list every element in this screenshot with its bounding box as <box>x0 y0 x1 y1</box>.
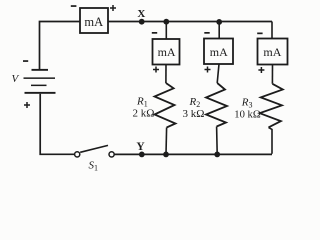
battery plate short (top, negative) <box>32 69 49 71</box>
polarity + of ammeter U2 <box>153 67 159 73</box>
ammeter U2 (branch 1 mA meter) <box>153 39 180 65</box>
svg-text:mA: mA <box>210 45 228 59</box>
wire: battery bottom stub to bottom-left corner and to switch <box>40 94 74 155</box>
resistor R2 <box>206 83 227 127</box>
junction dot: branch 1 bottom tap <box>163 152 169 158</box>
battery V <box>24 69 56 94</box>
polarity + of ammeter U1 <box>110 5 116 11</box>
junction dot: branch 2 top tap <box>216 19 222 25</box>
svg-text:mA: mA <box>158 45 176 59</box>
resistor R3 <box>260 84 283 128</box>
wire: branch 2 drop from top bus to meter <box>218 22 220 39</box>
ammeter U1 (series mA meter) <box>80 8 108 33</box>
wire: resistor R2 to bottom bus <box>216 127 219 155</box>
wire: branch 1 drop from top bus to meter <box>165 22 167 39</box>
polarity - of ammeter U3 <box>204 32 209 34</box>
node X junction dot <box>139 19 145 25</box>
polarity + of ammeter U3 <box>205 67 211 73</box>
svg-text:Y: Y <box>136 141 145 153</box>
resistor R1 <box>155 83 176 128</box>
svg-text:mA: mA <box>84 15 103 29</box>
battery plate short <box>31 85 47 87</box>
wire: bottom bus from switch to bottom-right corner <box>114 153 272 155</box>
battery plate long (bottom, positive) <box>25 92 56 94</box>
polarity + of battery <box>24 102 30 108</box>
wire: branch 3 meter to resistor R3 <box>271 65 273 84</box>
switch blade <box>80 145 108 152</box>
polarity - of ammeter U4 <box>257 33 262 35</box>
wire: resistor R1 to bottom bus <box>165 128 168 155</box>
battery plate long <box>24 77 56 79</box>
svg-text:X: X <box>137 8 145 20</box>
wire: branch 1 meter to resistor R1 <box>165 65 167 84</box>
polarity - of ammeter U1 <box>71 5 77 7</box>
wire: branch 2 meter to resistor R2 <box>217 64 219 83</box>
junction dot: branch 1 top tap <box>163 19 169 25</box>
junction dot: branch 2 bottom tap <box>214 152 220 158</box>
ammeter U4 (branch 3 mA meter) <box>258 39 288 65</box>
wire: top bus from ammeter to right corner <box>108 21 272 23</box>
svg-text:mA: mA <box>263 45 281 59</box>
svg-text:2 kΩ: 2 kΩ <box>133 108 155 120</box>
polarity - of ammeter U2 <box>152 32 157 34</box>
svg-text:10 kΩ: 10 kΩ <box>234 110 261 121</box>
polarity + of ammeter U4 <box>258 67 264 73</box>
polarity - of battery <box>23 60 28 62</box>
wire: top bus left segment from battery to ammeter <box>40 22 81 70</box>
svg-text:3 kΩ: 3 kΩ <box>183 108 205 120</box>
wire: branch 3 drop from top-right corner to meter <box>271 22 273 39</box>
wire: resistor R3 to bottom-right corner <box>269 127 273 153</box>
ammeter U3 (branch 2 mA meter) <box>204 39 233 65</box>
switch terminal circle left <box>75 152 80 157</box>
switch S1 <box>75 145 115 157</box>
node Y junction dot <box>139 152 145 158</box>
switch terminal circle right <box>109 152 114 157</box>
